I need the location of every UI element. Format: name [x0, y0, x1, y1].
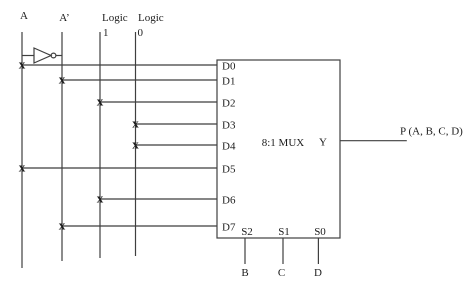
wire D7 [62, 225, 217, 227]
wire rail A' vertical [61, 32, 63, 261]
wire select S1 stub [282, 238, 284, 264]
svg-text:S2: S2 [241, 226, 253, 238]
svg-text:D2: D2 [222, 98, 235, 110]
svg-text:x: x [59, 218, 66, 233]
wire rail A vertical [21, 32, 23, 268]
svg-text:P (A, B, C, D): P (A, B, C, D) [400, 126, 463, 138]
wire rail Logic 0 vertical [135, 32, 137, 256]
svg-text:D1: D1 [222, 76, 235, 88]
wire select S2 stub [244, 238, 246, 264]
wire inverter output to A' [56, 55, 62, 57]
wire D1 [62, 79, 217, 81]
svg-text:D5: D5 [222, 164, 236, 176]
svg-text:D6: D6 [222, 195, 236, 207]
svg-text:8:1 MUX: 8:1 MUX [262, 137, 305, 149]
svg-text:D7: D7 [222, 222, 236, 234]
mux U2 box 8:1 MUX [217, 60, 340, 238]
svg-text:D0: D0 [222, 61, 236, 73]
svg-text:x: x [132, 116, 139, 131]
wire rail Logic 1 vertical [99, 32, 101, 258]
wire D2 [100, 101, 217, 103]
inverter U1 [34, 48, 51, 63]
wire D4 [136, 144, 218, 146]
wire D0 [22, 64, 217, 66]
svg-text:Logic: Logic [102, 12, 128, 24]
svg-text:x: x [19, 160, 26, 175]
svg-text:Logic: Logic [138, 12, 164, 24]
svg-text:B: B [241, 267, 248, 279]
wire inverter input [22, 55, 34, 57]
wire D6 [100, 198, 217, 200]
svg-text:x: x [97, 94, 104, 109]
wire D3 [136, 123, 218, 125]
svg-text:S1: S1 [278, 226, 290, 238]
wire Y output [340, 140, 407, 142]
svg-text:A: A [20, 10, 28, 22]
svg-text:S0: S0 [314, 226, 326, 238]
svg-text:D4: D4 [222, 141, 236, 153]
svg-text:x: x [97, 191, 104, 206]
svg-text:D3: D3 [222, 120, 236, 132]
svg-text:x: x [132, 137, 139, 152]
svg-text:C: C [278, 267, 285, 279]
svg-text:0: 0 [138, 27, 144, 39]
svg-text:x: x [59, 72, 66, 87]
svg-text:x: x [19, 57, 26, 72]
wire D5 [22, 167, 217, 169]
svg-text:A’: A’ [59, 12, 69, 24]
svg-text:Y: Y [319, 137, 327, 149]
wire select S0 stub [317, 238, 319, 264]
svg-text:1: 1 [103, 27, 109, 39]
svg-text:D: D [314, 267, 322, 279]
